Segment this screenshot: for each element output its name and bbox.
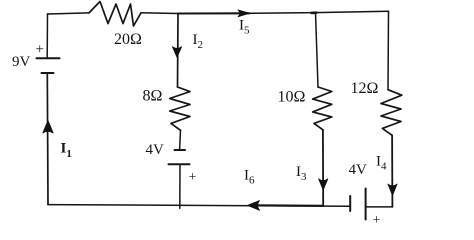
arrowhead I6 (left) xyxy=(248,201,260,211)
wire 12ohm down to bottom-right corner (I4 segment) xyxy=(391,135,393,207)
svg-text:8Ω: 8Ω xyxy=(143,88,163,105)
wire node B to top-right corner xyxy=(316,11,389,12)
wire top-right corner down (12ohm branch top) xyxy=(387,11,390,90)
svg-text:20Ω: 20Ω xyxy=(114,31,142,48)
resistor 12ohm xyxy=(381,90,402,136)
battery 9V short plate (-) xyxy=(42,72,54,74)
arrowhead I5 (right) xyxy=(238,10,250,17)
svg-text:12Ω: 12Ω xyxy=(351,80,379,97)
wire left branch down to 9V battery xyxy=(46,14,48,58)
wire I6 arrow shaft xyxy=(250,204,323,207)
battery 4V middle short plate (-) xyxy=(175,149,186,151)
battery 9V long plate (+) xyxy=(37,57,60,59)
resistor 10ohm xyxy=(313,87,332,130)
wire 9V battery down to bottom-left corner xyxy=(46,73,49,205)
arrowhead I2 (down) xyxy=(172,47,181,58)
svg-text:+: + xyxy=(36,42,44,58)
svg-text:4V: 4V xyxy=(349,162,368,178)
svg-text:I1: I1 xyxy=(61,141,72,161)
svg-text:+: + xyxy=(373,213,381,228)
svg-text:I2: I2 xyxy=(193,32,204,51)
wire node A to node B xyxy=(250,12,316,15)
wire I5 arrow shaft xyxy=(178,12,250,14)
arrowhead I4 (down) xyxy=(388,184,397,196)
wire 20ohm to node A xyxy=(141,12,178,15)
node B junction tick on top wire xyxy=(312,11,317,14)
arrowhead I1 (up) xyxy=(43,121,53,134)
svg-text:10Ω: 10Ω xyxy=(278,89,306,106)
wire node A down (I2 segment) xyxy=(177,14,180,88)
resistor 20ohm xyxy=(89,2,141,27)
wire bottom left to bottom battery xyxy=(48,205,350,207)
svg-text:4V: 4V xyxy=(146,142,165,158)
svg-text:I5: I5 xyxy=(239,18,250,37)
battery 4V middle long plate (+) xyxy=(169,163,190,165)
wire node B down (10ohm branch top) xyxy=(316,13,319,87)
wire 8ohm to middle battery xyxy=(179,130,182,149)
svg-text:I6: I6 xyxy=(244,168,255,187)
resistor 8ohm xyxy=(170,87,190,130)
battery 4V bottom long plate (+) xyxy=(365,189,367,220)
svg-text:I3: I3 xyxy=(296,164,307,183)
svg-text:9V: 9V xyxy=(12,54,31,70)
wire bottom battery to bottom-right corner xyxy=(366,206,393,208)
battery 4V bottom short plate (-) xyxy=(349,196,351,211)
arrowhead I3 (down) xyxy=(319,179,328,190)
wire middle battery down to bottom wire xyxy=(179,164,181,208)
svg-text:+: + xyxy=(189,170,197,185)
wire top-left segment xyxy=(48,13,90,14)
svg-text:I4: I4 xyxy=(376,154,387,173)
wire 10ohm down to bottom wire (I3 segment) xyxy=(322,130,324,206)
